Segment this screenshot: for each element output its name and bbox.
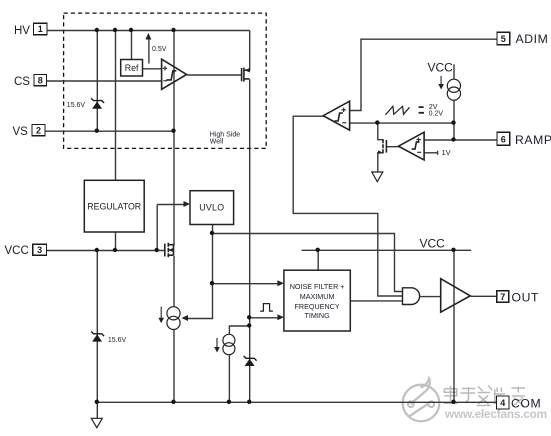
svg-text:VCC: VCC (428, 61, 454, 75)
svg-text:FREQUENCY: FREQUENCY (295, 302, 340, 311)
svg-text:1V: 1V (442, 148, 451, 157)
svg-text:0.5V: 0.5V (152, 46, 167, 53)
svg-text:3: 3 (37, 245, 42, 255)
svg-text:0.2V: 0.2V (429, 111, 444, 118)
svg-text:6: 6 (501, 134, 506, 144)
svg-text:High Side: High Side (210, 132, 240, 139)
svg-text:Ref: Ref (125, 63, 139, 73)
svg-text:5: 5 (501, 34, 506, 44)
svg-text:7: 7 (500, 292, 505, 302)
svg-text:UVLO: UVLO (199, 203, 224, 213)
svg-text:1: 1 (38, 24, 43, 34)
svg-text:VCC: VCC (420, 236, 446, 250)
svg-text:15.6V: 15.6V (67, 102, 86, 109)
svg-text:RAMP: RAMP (515, 133, 551, 147)
svg-text:COM: COM (511, 396, 541, 410)
svg-text:REGULATOR: REGULATOR (87, 201, 141, 211)
svg-text:2: 2 (36, 126, 41, 136)
svg-text:MAXIMUM: MAXIMUM (300, 292, 335, 301)
svg-text:VS: VS (13, 126, 29, 138)
svg-text:4: 4 (500, 398, 505, 408)
svg-text:Well: Well (210, 139, 224, 146)
svg-text:OUT: OUT (512, 290, 540, 304)
svg-text:ADIM: ADIM (516, 32, 549, 46)
svg-text:NOISE FILTER +: NOISE FILTER + (290, 282, 345, 291)
svg-text:CS: CS (14, 76, 30, 88)
svg-text:TIMING: TIMING (305, 311, 331, 320)
svg-text:8: 8 (38, 76, 43, 86)
svg-text:15.6V: 15.6V (108, 337, 127, 344)
svg-text:HV: HV (14, 25, 30, 37)
svg-text:VCC: VCC (5, 245, 29, 257)
